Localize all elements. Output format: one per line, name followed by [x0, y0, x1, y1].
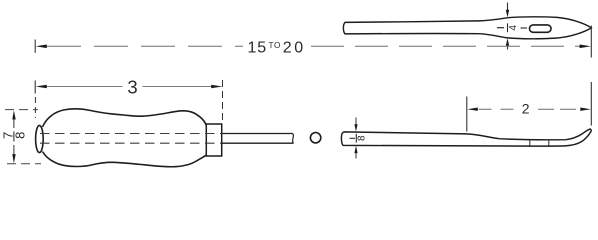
- dimension 15 to 20 right arrow: [580, 45, 591, 49]
- dimension 15 to 20 right extension line: [590, 26, 592, 58]
- dimension 15 to 20 line left part: [47, 45, 243, 47]
- blade bend tick 1: [529, 140, 531, 147]
- tang hidden line top: [40, 133, 222, 135]
- svg-text:8: 8: [356, 135, 367, 141]
- dimension 2 line left part: [479, 108, 516, 110]
- dimension 3 line right part: [143, 86, 214, 88]
- svg-text:TO: TO: [269, 41, 281, 50]
- width dimension 1/4 leader top: [506, 3, 509, 18]
- fraction 1/4 (rotated): [497, 23, 527, 32]
- dimension 3 left extension line: [34, 81, 36, 119]
- handle butt cap: [36, 125, 44, 152]
- dimension 15 to 20 left extension tick: [34, 40, 36, 53]
- shaft top edge: [222, 133, 293, 135]
- dimension 2 right arrow: [580, 108, 591, 111]
- fraction 1/8 (rotated): [350, 134, 368, 143]
- dimension 3 right arrow: [211, 85, 222, 89]
- top view blade outline: [343, 17, 591, 39]
- handle body outline bottom: [43, 152, 207, 167]
- width dimension 1/4 leader bottom: [506, 38, 509, 49]
- blade bend tick 2: [548, 140, 550, 147]
- shaft section circle: [310, 133, 320, 143]
- svg-text:4: 4: [508, 25, 519, 31]
- thickness dimension 1/8 top leader: [354, 118, 357, 132]
- handle body outline top: [43, 109, 207, 127]
- dimension 3 line left part: [47, 86, 123, 88]
- dimension 3 right extension line: [222, 80, 224, 121]
- slot in blade tip: [530, 25, 552, 32]
- dimension 15 to 20 text: [248, 40, 306, 57]
- svg-text:2: 2: [522, 100, 530, 116]
- svg-text:8: 8: [12, 132, 27, 139]
- ferrule: [206, 124, 221, 156]
- dimension 2 left extension line: [466, 97, 468, 132]
- dimension 2 left arrow: [467, 108, 478, 111]
- svg-text:20: 20: [283, 40, 306, 57]
- dimension 15 to 20 line right part: [311, 45, 580, 47]
- dimension 2 line right part: [538, 108, 580, 110]
- dimension 15 to 20 left arrow: [36, 45, 47, 49]
- thickness dimension 1/8 bottom leader: [354, 146, 357, 159]
- dimension 2 right extension line: [590, 82, 592, 126]
- fraction 7/8 (rotated): [1, 132, 28, 139]
- side view blade outline: [341, 129, 591, 146]
- shaft break line: [293, 134, 294, 144]
- tang hidden line bottom: [40, 142, 222, 144]
- svg-text:3: 3: [127, 77, 137, 98]
- handle diameter 7/8 bottom extension line: [7, 163, 41, 165]
- svg-text:15: 15: [248, 40, 267, 57]
- handle diameter 7/8 top extension line: [5, 109, 38, 111]
- dimension 3 left arrow: [36, 85, 47, 89]
- shaft bottom edge: [222, 142, 294, 144]
- handle diameter 7/8 dimension line with arrows: [12, 110, 15, 163]
